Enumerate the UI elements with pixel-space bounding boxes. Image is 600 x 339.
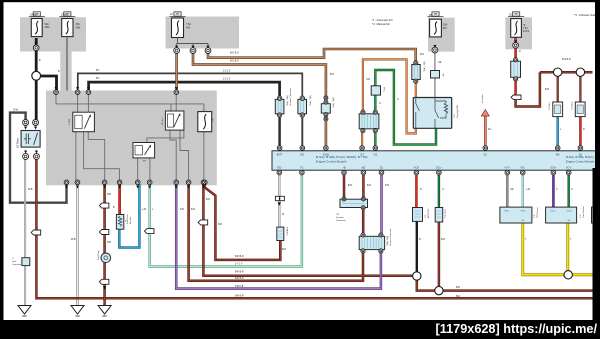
ECM top pins (278, 148, 281, 151)
svg-text:B-R: B-R (282, 249, 286, 251)
connectors below IGN fuse block (175, 46, 178, 49)
svg-text:Engine Control Module: Engine Control Module (566, 159, 595, 163)
ground: fuel pump (98, 306, 111, 315)
svg-text:R-B: R-B (107, 194, 111, 196)
svg-text:*2 : Manual A/C: *2 : Manual A/C (372, 22, 390, 26)
svg-text:W-B: W-B (28, 189, 33, 191)
svg-text:+B2: +B2 (361, 167, 366, 169)
junction connector lower (IGT chain) (359, 114, 379, 129)
svg-text:G: G (442, 189, 444, 191)
junction connector No.41 below ECM (340, 199, 368, 207)
connector below fuse AM2 (35, 42, 38, 45)
wire: B-W loop to relay block ground pin (10, 113, 67, 203)
wire: VVT sensor gray (506, 173, 508, 208)
svg-text:to Injector: to Injector (481, 94, 484, 103)
svg-text:ACIS VSV: ACIS VSV (427, 208, 430, 218)
wire: FC fuel pump control (mint green) (150, 173, 302, 267)
svg-text:B-Y: B-Y (96, 78, 100, 80)
relay C/OPN (relay block left) (73, 112, 95, 132)
svg-text:IGN: IGN (186, 26, 191, 29)
fuse AM1 30A (62, 19, 73, 37)
wire: ACIS black to junction circle (416, 221, 418, 272)
svg-text:OCV-: OCV- (566, 211, 571, 213)
junction connector A5 on EFI fuse wire (431, 71, 440, 79)
VVT sensor box (500, 207, 532, 223)
svg-text:*3(A), *4(B): *3(A), *4(B) (423, 61, 426, 72)
fuse AM2 50A (31, 19, 42, 37)
wire: +B to junction connector (dark red) (343, 173, 346, 201)
svg-text:B-R: B-R (441, 239, 445, 241)
fuel pump connector flags (99, 203, 109, 208)
svg-text:B-R: B-R (191, 209, 195, 211)
svg-text:B-R B-R: B-R B-R (235, 256, 244, 258)
relay A/F heater (21, 131, 40, 148)
internal wiring of relay block (55, 95, 57, 104)
svg-text:*3(A), *4(B): *3(A), *4(B) (309, 95, 312, 106)
wire: orange junction to ECM IGT (361, 131, 363, 147)
svg-text:B-R B-R: B-R B-R (562, 59, 571, 61)
ACIS valve connector box (413, 208, 423, 222)
svg-text:C/OPN: C/OPN (69, 118, 71, 125)
ECM: Engine Control Module bar (272, 151, 597, 170)
wire: W-B branch to ground via joint connector (24, 159, 26, 307)
svg-text:L-Y L-Y: L-Y L-Y (235, 264, 243, 266)
svg-text:B-O B-O: B-O B-O (230, 61, 239, 63)
svg-text:Junction Connector: Junction Connector (289, 88, 292, 106)
junction block (ignition fuse box) (166, 17, 240, 49)
inline connector on E03 wire (275, 196, 284, 200)
wire: run B chain to ECM BATT (278, 116, 281, 148)
svg-text:B-R B-R: B-R B-R (235, 278, 244, 280)
svg-text:B-R: B-R (348, 185, 352, 187)
svg-text:Resistor: Resistor (129, 216, 132, 224)
svg-text:ACIS: ACIS (414, 166, 420, 169)
connector below EFI fuse (433, 45, 436, 48)
ECM bottom pins (278, 170, 281, 173)
node: battery junction (32, 71, 41, 80)
svg-text:Fog Light SW: Fog Light SW (456, 105, 459, 118)
fuse EFI 20A (430, 19, 442, 37)
wire: VVT sensor shield (pale cyan) (522, 173, 524, 208)
wire: ACIS red from ECM (415, 173, 417, 208)
wire: +BM red from noise filter (579, 117, 581, 147)
svg-text:EFI No.1: EFI No.1 (162, 116, 164, 125)
A/F relay connectors (23, 120, 29, 126)
svg-text:BATT: BATT (277, 153, 283, 156)
svg-text:Fuel Pump: Fuel Pump (127, 213, 129, 224)
connector flag on A/F relay wire (31, 230, 41, 235)
svg-text:G: G (379, 103, 381, 105)
wire: EFI main to junction circle (dark red) (203, 184, 414, 276)
svg-text:C11 OCV: C11 OCV (445, 209, 447, 218)
park/neutral position SW connector (371, 86, 380, 95)
svg-text:B-O: B-O (330, 74, 334, 76)
svg-text:GAM2: GAM2 (30, 14, 37, 17)
wire: sensor shield yellow bus (523, 223, 593, 275)
svg-text:B-R: B-R (367, 185, 371, 187)
fuse ETCS 7.5A (511, 19, 522, 38)
relay block bottom pin connectors (64, 180, 69, 185)
OCV filter box (435, 208, 443, 223)
svg-text:Joint: Joint (12, 260, 17, 263)
camshaft position sensor box (546, 207, 577, 223)
wire: OCV green from ECM (438, 173, 440, 208)
svg-text:B-R: B-R (206, 199, 210, 201)
svg-text:Cam Position: Cam Position (582, 206, 585, 218)
connector flag on EFI main wire (198, 220, 208, 225)
wire: fuel pump resistor feed (red) (118, 184, 121, 216)
wire: green loop via park/neutral switch (375, 70, 436, 145)
wire: A/F relay output (dark red) long bottom bus (36, 159, 592, 299)
svg-text:E03: E03 (277, 167, 282, 169)
wire: gray from EFI fuse to main relay (434, 52, 436, 98)
svg-text:O-B: O-B (366, 79, 371, 81)
svg-text:B-R B-R: B-R B-R (235, 296, 244, 298)
wire: IGN fuse to relay block (brown) (175, 53, 178, 91)
joint connector chain BATT (275, 99, 284, 113)
svg-text:A/F Relay: A/F Relay (17, 137, 20, 148)
svg-text:OCV-: OCV- (566, 167, 572, 169)
svg-text:GR: GR (510, 189, 514, 191)
wire: run B thick black to ECM (89, 82, 280, 97)
node: OCV ground junction (435, 286, 443, 294)
node: ACIS ground junction (413, 272, 421, 280)
fuel pump motor (101, 253, 111, 263)
wire: EFI relay to junction connector (dark red) (189, 184, 363, 281)
relay block (engine room R/B) (46, 91, 217, 186)
svg-text:P-B P-B: P-B P-B (235, 286, 244, 288)
svg-text:* 5 : w/Power Gate: * 5 : w/Power Gate (574, 13, 597, 17)
svg-text:EFI: EFI (143, 161, 147, 163)
svg-text:B-R: B-R (456, 296, 460, 298)
noise filter No.2 box (575, 102, 585, 117)
svg-text:IGSW: IGSW (323, 154, 330, 156)
relay block top pin connectors (54, 87, 57, 90)
ETCS noise filter capacitor (511, 61, 521, 77)
wire: run A to ECM BATT (dark gray) (78, 73, 302, 97)
wire: OCV return (dark red) (438, 222, 441, 287)
svg-text:G: G (397, 99, 399, 101)
fuse IGN 7.5A (172, 18, 184, 38)
ground: W-B relay block (71, 306, 84, 315)
svg-text:G: G (571, 189, 573, 191)
wire: battery feed from fuse AM2 (black) (35, 38, 38, 121)
svg-text:B 4(A), B 5(B), B 6(C), B1: B 4(A), B 5(B), B 6(C), B1 (566, 155, 598, 159)
svg-text:*1 : Automatic A/C: *1 : Automatic A/C (372, 18, 393, 22)
relay EFI No.2 (133, 143, 155, 158)
wire: run A chain to ECM +B (301, 116, 303, 148)
svg-text:*3(A), *4(B): *3(A), *4(B) (286, 95, 289, 106)
wire: junction to ground bus (dark red) (417, 280, 593, 291)
svg-text:[1179x628] https://upic.me/: [1179x628] https://upic.me/ (436, 322, 598, 336)
connector flag on mint wire (144, 229, 154, 234)
wire: drop to noise filter 2 (dark red) (579, 76, 581, 102)
svg-text:*2 A5: *2 A5 (383, 86, 386, 92)
svg-text:Junction: Junction (336, 216, 345, 219)
svg-text:E01: E01 (300, 154, 305, 156)
svg-text:GAM1: GAM1 (61, 14, 68, 17)
node: ETCS bus junction 2 (576, 68, 584, 76)
noise filter (ignition) brown chain (412, 65, 420, 80)
svg-text:VVT+: VVT+ (504, 211, 510, 213)
border frame (0, 0, 4, 339)
svg-text:OC1+: OC1+ (436, 167, 443, 169)
svg-text:AM1: AM1 (76, 26, 82, 29)
wire: W-B from relay block to ground (76, 184, 78, 306)
junction connector JC2 hatched (359, 236, 384, 249)
svg-text:VVT Sensor: VVT Sensor (537, 207, 539, 218)
wire: resistor to relay block (cyan) (119, 184, 139, 248)
svg-text:B-R: B-R (218, 224, 222, 226)
wire: fuel pump feed (dark red) (103, 184, 106, 306)
wire: +B2 to junction connector (dark red) (362, 173, 365, 201)
svg-text:2-2 2-2: 2-2 2-2 (223, 79, 231, 81)
wire: junction connector chain down (dark red) (362, 208, 365, 236)
svg-text:P-B: P-B (180, 209, 184, 211)
ETCS inline connector (511, 95, 521, 100)
svg-text:EFI: EFI (213, 118, 215, 122)
svg-text:VV1-: VV1- (520, 167, 525, 169)
wire: white E03 to check connector (278, 173, 280, 228)
wire: cam sensor violet (552, 173, 554, 208)
wire: green junction to ECM (374, 131, 376, 147)
connector below ETCS fuse (514, 40, 517, 43)
joint connector chain +B (298, 99, 307, 113)
svg-text:VVT+: VVT+ (504, 167, 510, 169)
svg-text:VV1-: VV1- (521, 211, 526, 213)
svg-text:2B: 2B (429, 14, 432, 17)
svg-text:OCV+: OCV+ (550, 167, 557, 169)
svg-text:EFI: EFI (443, 27, 447, 30)
svg-text:B-O: B-O (420, 54, 424, 56)
wire: IGN fuse to IGSW (brown) (193, 53, 326, 98)
svg-text:B-R: B-R (545, 89, 549, 91)
wire: green segment junction connector to noise filter (374, 95, 376, 112)
svg-text:Engine Control Module: Engine Control Module (316, 160, 347, 164)
wire: injector feed (salmon) with arrow (484, 115, 487, 147)
svg-text:B-R B-R: B-R B-R (235, 272, 244, 274)
svg-text:R-B: R-B (107, 242, 111, 244)
wire: IGSW chain to ECM (brown) (325, 116, 328, 148)
junction block (EFI fuse box) (428, 18, 455, 52)
svg-text:Fuel Pump: Fuel Pump (98, 249, 100, 260)
wire: ETCS fuse feed (red) (514, 37, 516, 61)
svg-text:ETCS: ETCS (523, 31, 530, 33)
ground: left joint connector (18, 306, 31, 315)
wire: cam sensor green (568, 173, 570, 208)
svg-text:B-R: B-R (456, 287, 460, 289)
svg-text:Junction Connector: Junction Connector (389, 228, 392, 246)
relay EFI No.1 (165, 111, 184, 130)
svg-text:P-B: P-B (385, 185, 389, 187)
svg-text:1E: 1E (509, 14, 512, 17)
node: yellow bus junction (564, 271, 572, 279)
svg-text:2-2 2-2: 2-2 2-2 (223, 71, 231, 73)
svg-text:FC: FC (300, 167, 303, 169)
wire: check connector to diagnosis bus (dark red) (279, 241, 282, 260)
junction block (ETCS fuse box) (505, 17, 532, 49)
check connector (blue) (277, 227, 284, 240)
wire: drop to noise filter 1 (dark red) (557, 76, 559, 102)
third sensor box partial at border (592, 207, 598, 223)
svg-text:AM2: AM2 (45, 26, 51, 29)
wire: BATT cyan from noise filter (557, 117, 559, 147)
main relay (fog light SW style box) (413, 98, 451, 129)
node: ETCS bus junction 1 (554, 68, 562, 76)
wire: MREL purple loop (176, 184, 381, 289)
svg-text:+B: +B (343, 167, 346, 169)
svg-text:B-Y: B-Y (96, 70, 100, 72)
svg-text:B-O B-O: B-O B-O (230, 53, 239, 55)
svg-text:Connector: Connector (336, 219, 346, 222)
svg-text:OCV+: OCV+ (550, 211, 557, 213)
svg-text:W-B: W-B (71, 239, 76, 241)
svg-text:BM: BM (556, 154, 560, 156)
wire: noise filter to main relay (orange) (415, 82, 417, 98)
noise filter No.1 box (553, 102, 563, 117)
svg-text:C/O No.2: C/O No.2 (572, 101, 574, 110)
watermark bar (0, 320, 600, 339)
svg-text:Connector: Connector (12, 263, 22, 266)
svg-text:*4(A), *4(B): *4(A), *4(B) (386, 235, 389, 246)
wire: EFI branch diagonal (dark red) (205, 184, 280, 260)
wire: orange loop ST relay (363, 59, 416, 133)
wire: branch to relay block (black) (36, 76, 56, 91)
svg-text:GR: GR (438, 62, 442, 64)
svg-text:*4(A), *3(B): *4(A), *3(B) (332, 97, 335, 108)
wire: purple from ECM to junction connector (380, 173, 383, 236)
fuel pump resistor (116, 215, 123, 230)
junction connector chain IGSW (321, 104, 330, 113)
joint connector *1 on ground wire (22, 258, 30, 266)
svg-text:C/O No.1: C/O No.1 (549, 101, 551, 110)
svg-text:7.5A: 7.5A (523, 27, 528, 30)
svg-text:IGT: IGT (360, 154, 364, 156)
wire: ETCS power bus (dark red) (516, 72, 540, 106)
fuse EFI relay block (198, 112, 212, 132)
junction block (top-left fuse box) (20, 17, 86, 51)
svg-text:*1 W-ACH: *1 W-ACH (286, 226, 289, 236)
wire: IGN fuse to ignition noise filter (brown) (208, 49, 416, 63)
